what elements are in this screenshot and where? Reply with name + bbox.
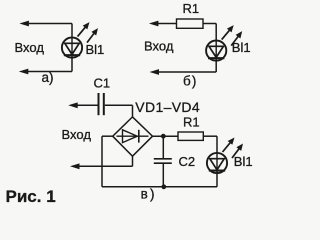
diode bridge VD1-VD4 [113, 117, 153, 156]
LED Bl1 of circuit v [207, 138, 243, 174]
svg-text:Вход: Вход [144, 38, 174, 53]
LED Bl1 of circuit a [62, 22, 98, 58]
arrow on top input v [68, 102, 78, 108]
svg-text:Bl1: Bl1 [86, 42, 105, 57]
wire: bottom input of circuit a [26, 71, 72, 73]
LED Bl1 of circuit b [206, 25, 242, 61]
svg-text:R1: R1 [183, 1, 200, 16]
svg-text:Рис. 1: Рис. 1 [6, 187, 56, 206]
wire: second input of circuit v [77, 165, 133, 167]
capacitor C1 [98, 93, 100, 115]
wire: R1 to LED top [203, 135, 217, 137]
resistor R1 (v) [178, 132, 203, 140]
svg-text:VD1–VD4: VD1–VD4 [135, 99, 200, 115]
junction node at C2 bottom / rail [161, 184, 166, 189]
wire: bridge left corner to minus rail [102, 135, 113, 137]
svg-text:Bl1: Bl1 [234, 154, 253, 169]
capacitor C2 [162, 136, 164, 158]
wire: top input of circuit v [75, 104, 98, 106]
svg-text:Вход: Вход [62, 127, 92, 142]
svg-text:Вход: Вход [15, 40, 45, 55]
wire: bottom input of circuit b [156, 71, 216, 73]
wire: bottom rail [102, 186, 217, 188]
svg-text:C1: C1 [94, 75, 111, 90]
wire: C1 to bridge top [105, 104, 133, 106]
arrow on top input b [149, 21, 159, 27]
wire: R1 to LED top [203, 23, 216, 25]
arrow on second input v [70, 163, 80, 169]
arrow on bottom input b [150, 69, 160, 75]
svg-text:Bl1: Bl1 [232, 40, 251, 55]
wire: bridge right corner to R1 [153, 135, 179, 137]
svg-text:R1: R1 [183, 114, 200, 129]
wire: LED bottom to rail [216, 173, 218, 187]
svg-text:C2: C2 [179, 154, 196, 169]
wire: top input of circuit a [26, 23, 72, 25]
junction node at bridge+ / R1 / C2 [161, 134, 166, 139]
arrow on bottom input a [19, 69, 29, 75]
diode symbol inside bridge [117, 135, 149, 137]
svg-text:б): б) [183, 73, 198, 88]
resistor R1 (b) [177, 19, 204, 28]
svg-text:в): в) [141, 187, 157, 202]
svg-text:а): а) [42, 70, 54, 85]
wire: top input of circuit b [155, 23, 177, 25]
arrow on top input a [19, 21, 29, 27]
